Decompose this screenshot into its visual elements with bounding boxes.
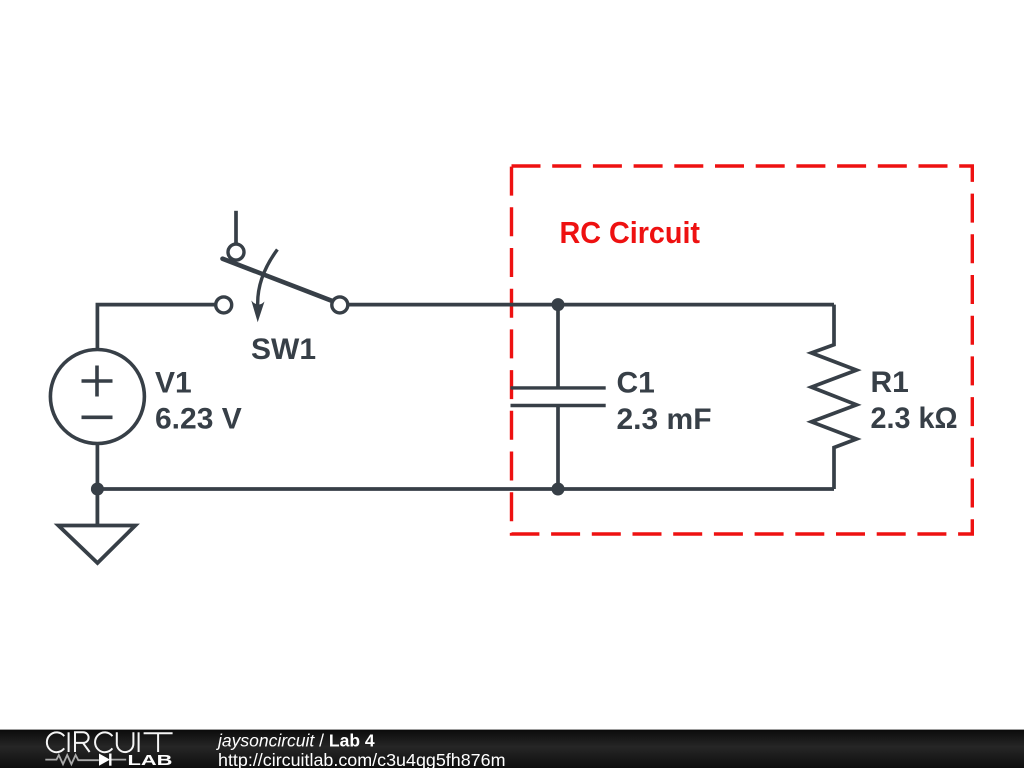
logo resistor-diode squiggle — [45, 755, 126, 764]
red dashed enclosure box — [512, 166, 973, 534]
resistor R1 — [811, 305, 856, 489]
svg-text:SW1: SW1 — [251, 333, 316, 366]
svg-text:2.3 kΩ: 2.3 kΩ — [871, 402, 958, 435]
svg-text:http://circuitlab.com/c3u4qg5f: http://circuitlab.com/c3u4qg5fh876m — [218, 750, 506, 768]
switch arrowhead — [251, 301, 264, 323]
wire from switch right terminal to resistor top corner — [340, 303, 834, 307]
svg-text:LAB: LAB — [128, 752, 173, 768]
capacitor C1 — [511, 305, 606, 489]
label R1 value — [871, 366, 958, 435]
label C1 value — [617, 366, 712, 436]
svg-text:C1: C1 — [617, 366, 655, 399]
junction node capacitor top — [552, 298, 565, 311]
bottom wire from V1 to resistor bottom corner — [97, 444, 834, 490]
switch SW1 — [216, 211, 348, 313]
svg-text:V1: V1 — [155, 367, 192, 400]
CircuitLab logo wordmark CIRCUIT — [47, 732, 173, 752]
wire from V1 top to switch left terminal — [97, 305, 223, 350]
junction node bottom-left — [91, 483, 104, 496]
voltage source V1 — [50, 350, 144, 444]
svg-text:R1: R1 — [871, 366, 909, 399]
junction node capacitor bottom — [552, 483, 565, 496]
logo diode — [99, 754, 110, 766]
svg-text:jaysoncircuit / Lab 4: jaysoncircuit / Lab 4 — [216, 730, 375, 750]
svg-text:6.23 V: 6.23 V — [155, 403, 242, 436]
footer bar — [0, 730, 1024, 768]
ground — [58, 489, 135, 563]
svg-text:RC Circuit: RC Circuit — [560, 216, 701, 250]
label V1 value — [155, 367, 242, 436]
svg-text:2.3 mF: 2.3 mF — [617, 403, 712, 436]
